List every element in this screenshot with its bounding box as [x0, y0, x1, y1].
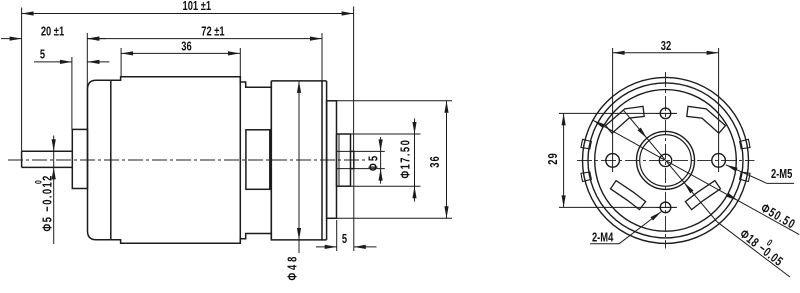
motor side view: rear flange 36 OD [327, 101, 337, 219]
svg-text:5: 5 [342, 233, 347, 247]
end view: rim tab 2 [581, 139, 591, 149]
end view: centerlines [665, 72, 667, 249]
svg-text:2-M5: 2-M5 [771, 168, 792, 182]
svg-text:36: 36 [429, 155, 443, 168]
end view: rim tab 1 [581, 172, 591, 182]
motor side view: rear bearing boss d17.5 [337, 134, 351, 186]
svg-text:Φ5: Φ5 [367, 154, 381, 171]
end view: shaft circle [659, 154, 671, 166]
motor side view: rear housing [271, 81, 322, 240]
motor side view: front endcap [88, 80, 111, 240]
svg-text:72 ±1: 72 ±1 [201, 25, 224, 39]
motor side view: brush ring with groove [240, 77, 271, 244]
dimension d18 -0.05 diagonal [623, 110, 717, 222]
motor side view: terminal block [246, 130, 270, 190]
end view: bottom M4 hole [660, 202, 671, 213]
svg-text:Φ17.50: Φ17.50 [399, 139, 413, 179]
end view: can circle [588, 83, 743, 238]
end view: top M4 hole [660, 108, 671, 119]
dimension 36 rear flange OD [330, 100, 452, 102]
dimension front shaft d5 -0.012 [53, 136, 55, 245]
svg-text:5: 5 [40, 48, 45, 62]
end view: right M5 hole [712, 154, 726, 168]
svg-text:20 ±1: 20 ±1 [41, 25, 64, 39]
dimension 36 can length [121, 52, 240, 54]
dimension 32 hole spacing [613, 52, 719, 54]
dimension 5 rear boss length [316, 246, 337, 248]
dimension 101+-1 overall length [22, 13, 354, 15]
svg-text:32: 32 [661, 39, 671, 53]
dimension d48 [298, 81, 300, 253]
end view: face circle [595, 90, 737, 232]
end view: vent slot top-left [606, 106, 645, 133]
end view: vent slot bottom-left [611, 181, 646, 210]
end view: left M5 hole [606, 154, 620, 168]
motor side view: front bearing boss [72, 129, 87, 188]
end view: vent slot top-right [687, 106, 726, 133]
end view: rim tab 3 [740, 139, 750, 149]
end view: rim tab 4 [740, 172, 750, 182]
dimension 29 hole spacing [563, 113, 565, 207]
svg-text:29: 29 [547, 152, 561, 165]
end view: vent slot bottom-right [685, 181, 720, 210]
dimension rear shaft d5 [337, 150, 385, 152]
end view: outer flange circle [583, 77, 749, 243]
dimension 72+-1 [87, 38, 322, 40]
svg-text:Φ48: Φ48 [286, 254, 300, 281]
svg-text:36: 36 [181, 40, 191, 54]
motor side view: centerline [8, 159, 366, 161]
dimension 20+-1 [1, 38, 22, 40]
dimension d50.50 diagonal [593, 120, 799, 234]
motor side view: can body [111, 77, 241, 244]
svg-text:0: 0 [33, 180, 43, 184]
motor side view: rear shaft stub [351, 151, 354, 168]
end view: bearing boss circle d18 [637, 131, 695, 189]
motor side view: front shaft [22, 151, 73, 167]
svg-text:2-M4: 2-M4 [592, 231, 614, 245]
dimension d17.50 rear boss [351, 133, 421, 135]
svg-text:101 ±1: 101 ±1 [183, 0, 212, 14]
dimension 5 front boss length [34, 61, 72, 63]
